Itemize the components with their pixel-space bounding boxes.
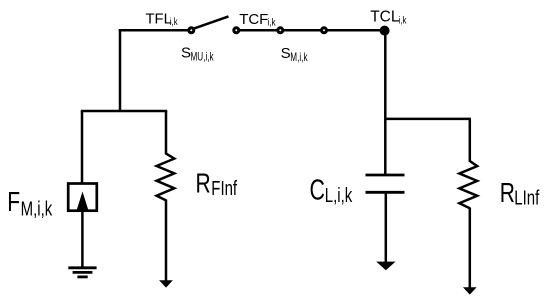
current source F_M,i,k box — [68, 184, 97, 211]
wire below capacitor — [385, 193, 388, 262]
label C_L,i,k — [310, 175, 353, 207]
wire RLInf branch down — [469, 119, 472, 162]
svg-text:S: S — [181, 44, 191, 61]
svg-text:L,i,k: L,i,k — [325, 184, 353, 207]
node TFL contact circle — [189, 28, 194, 33]
switch S_M closed lever wire — [283, 29, 321, 32]
wire left horizontal bus bar — [81, 110, 167, 113]
wire right vertical from TCL to capacitor — [384, 31, 387, 174]
svg-text:i,k: i,k — [399, 15, 407, 26]
svg-text:TCF: TCF — [239, 11, 268, 28]
label S_M,i,k — [281, 45, 308, 65]
svg-text:M,i,k: M,i,k — [290, 52, 307, 65]
wire to node TCL — [327, 29, 383, 32]
wire right branch down to resistor RFInf — [165, 111, 168, 155]
capacitor bottom terminal arrow — [376, 262, 395, 271]
svg-text:R: R — [196, 169, 211, 200]
svg-text:M,i,k: M,i,k — [21, 197, 53, 220]
svg-text:R: R — [500, 178, 515, 209]
svg-text:i,k: i,k — [267, 17, 276, 28]
switch S_M right contact circle — [322, 28, 327, 33]
current source arrow (upward) — [77, 192, 89, 211]
svg-text:LInf: LInf — [514, 186, 539, 209]
wire left vertical drop from top rail — [119, 29, 122, 111]
svg-text:FInf: FInf — [211, 177, 237, 200]
label TCF_i,k — [239, 11, 276, 28]
svg-text:S: S — [281, 45, 291, 62]
node TCL junction dot — [380, 26, 390, 36]
node TCF contact circle — [234, 28, 239, 33]
label TCL_i,k — [370, 8, 407, 26]
resistor RLInf zigzag — [459, 161, 477, 208]
ground symbol — [68, 268, 96, 277]
svg-text:i,k: i,k — [170, 16, 178, 27]
resistor RFInf zigzag — [157, 154, 175, 201]
wire top-left horizontal from corner to node TFL — [119, 29, 189, 32]
wire right horizontal bar to RLInf — [385, 118, 471, 121]
wire below source to ground — [81, 211, 84, 267]
capacitor C_L top plate — [366, 174, 405, 177]
capacitor C_L bottom plate — [366, 191, 405, 194]
RFInf bottom terminal arrow — [159, 280, 173, 287]
svg-text:TFL: TFL — [146, 11, 172, 27]
svg-text:TCL: TCL — [370, 8, 400, 25]
svg-text:C: C — [310, 175, 325, 207]
wire below RLInf — [469, 208, 472, 289]
svg-text:MU,i,k: MU,i,k — [191, 51, 214, 64]
label R_LInf — [500, 178, 540, 209]
wire TCF to switch S_M — [239, 29, 278, 32]
RLInf bottom terminal arrow — [463, 287, 477, 294]
svg-text:F: F — [7, 187, 20, 218]
wire left branch down to source — [81, 111, 84, 184]
label TFL_i,k — [146, 11, 179, 27]
switch S_MU open lever — [194, 16, 229, 28]
switch S_M left contact circle — [278, 28, 283, 33]
label S_MU,i,k — [181, 44, 214, 64]
wire below RFInf — [165, 200, 168, 282]
label F_M,i,k — [7, 187, 52, 220]
label R_FInf — [196, 169, 238, 200]
